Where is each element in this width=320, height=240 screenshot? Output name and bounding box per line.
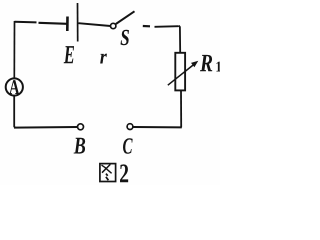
rheostat arrow (168, 65, 194, 86)
wire to top-right corner (155, 25, 179, 28)
switch S pivot circle (111, 23, 116, 28)
label E (64, 46, 74, 63)
wire bottom-right horizontal (133, 126, 182, 128)
label r (100, 54, 107, 64)
wire left vertical lower (13, 96, 16, 128)
switch S blade (116, 11, 135, 24)
ammeter A letter (9, 80, 19, 94)
wire top horizontal to battery (39, 23, 68, 24)
wire battery to switch (79, 23, 111, 26)
label R1 (200, 55, 212, 71)
wire bottom-left horizontal (14, 126, 77, 129)
caption 2 (120, 164, 128, 182)
battery E short plate (66, 17, 69, 32)
terminal C circle (127, 124, 133, 130)
wire top-left horizontal segment (15, 21, 37, 24)
rheostat arrowhead (191, 61, 198, 67)
wire below rheostat (180, 91, 182, 128)
label C (123, 138, 133, 153)
wire right vertical to rheostat (179, 26, 180, 54)
wire dash right of switch (143, 25, 150, 27)
terminal B circle (78, 124, 84, 130)
rheostat R1 body (175, 53, 185, 91)
label S (121, 30, 129, 45)
wire left vertical upper (13, 21, 15, 79)
ammeter A body (6, 78, 23, 95)
battery E long plate (77, 3, 79, 42)
caption 图 (drawn glyph) (100, 164, 116, 182)
label B (74, 138, 86, 154)
